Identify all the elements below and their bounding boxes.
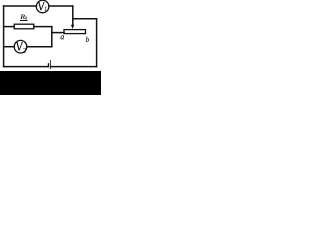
wire top-left horizontal: [4, 5, 37, 7]
wire top-right horizontal: [49, 5, 73, 7]
battery cell: [49, 60, 51, 69]
wire left vertical: [3, 6, 5, 67]
slider arrow: [71, 25, 74, 29]
wire bottom-left horizontal: [4, 66, 48, 68]
wire V2 branch left: [4, 46, 15, 48]
wire R0 branch left: [4, 26, 15, 28]
wire rheostat feed horizontal: [52, 32, 64, 34]
wire slider vertical from top: [72, 6, 74, 25]
label R0: [20, 15, 28, 21]
black bar: [0, 71, 101, 95]
wire V2 branch right: [27, 46, 52, 48]
node a label: [61, 35, 64, 39]
rheostat R: [64, 30, 86, 34]
resistor R0: [14, 24, 34, 29]
node b label: [86, 37, 89, 42]
voltmeter V2: [14, 40, 27, 53]
wire node M vertical: [51, 27, 53, 47]
wire R0 branch right: [34, 26, 52, 28]
wire junction-to-right horizontal: [73, 18, 97, 20]
wire bottom-right horizontal: [51, 66, 97, 68]
voltmeter V1: [36, 0, 49, 13]
wire right vertical: [96, 19, 98, 67]
